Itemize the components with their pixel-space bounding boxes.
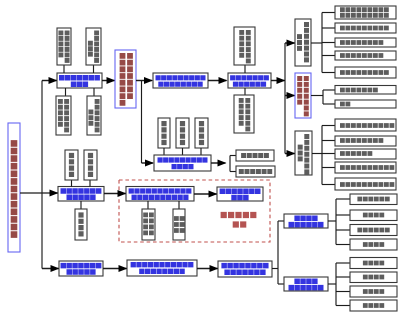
wire 跟踪引进 down stubs — [147, 201, 149, 209]
wire 日常管理辅助决策系统 to systems trunk — [311, 42, 322, 44]
wire 服务层次 to 队伍/物资 trunk — [272, 268, 278, 270]
node 多层次型应急物资体系 — [284, 277, 328, 291]
node 工业区安全应急管理信息平台 — [228, 73, 271, 88]
node 应急值守系统 — [335, 149, 396, 159]
node 防疫物资 — [350, 272, 397, 283]
wire 信息平台 up/down stubs — [244, 65, 246, 73]
node 突发公共卫生类应急预案 — [57, 28, 71, 65]
node 其他 — [335, 100, 396, 108]
node 应急数据统计分析系统 — [335, 162, 396, 173]
node 桌面演练 — [65, 150, 78, 180]
node 强化应急演练评估环节 — [217, 187, 263, 201]
wire 中心建设 to 信息平台建设方案 — [136, 80, 152, 82]
wire 跟踪引进 to 强化评估 — [194, 193, 217, 195]
node 数字化应急预案系统 — [335, 23, 396, 33]
node 应急管理辅助决策系统 — [295, 131, 312, 175]
node 防火物资 — [350, 286, 397, 297]
node 应急协调指挥系统 — [335, 136, 396, 146]
node 医疗队伍 — [350, 210, 397, 221]
wire 培训演练 stubs — [71, 180, 73, 187]
wire 综合应急预案体系建立 down stubs — [65, 88, 67, 96]
node 服务三个层次：企业、园区、社区 — [218, 261, 272, 277]
node 自然灾害类应急预案 — [86, 28, 101, 65]
wire 法制先行 to 服务三个层次 — [197, 268, 218, 270]
node 多层次型应急队伍体系 — [284, 214, 328, 228]
node 公安消防队伍 — [350, 194, 397, 205]
wire 信息平台 to right trunk — [271, 80, 285, 82]
wire 公用工程 to trunk — [311, 95, 323, 97]
node 与上级应急管理平台对接 — [234, 27, 255, 65]
wire 建设方案 to 信息平台 — [208, 80, 227, 82]
node 其他队伍 — [350, 239, 397, 250]
node 综合演练 — [75, 209, 87, 240]
node 其他、如人群疏散系统 — [335, 178, 396, 190]
node 功能演练 — [84, 150, 97, 180]
wire 应急管理辅助决策系统 to trunk — [312, 153, 322, 155]
node 社会安全类应急预案 — [87, 96, 101, 135]
node 安全生产事故类应急预案 — [56, 96, 71, 135]
node 应急管理信息系统 — [335, 51, 396, 60]
node 体制保障 — [158, 118, 170, 148]
node 南港工业区安全应急管理中心建设 — [115, 50, 136, 108]
node 工业区安全应急管理三制保障 — [154, 155, 211, 171]
node 行政执法与事故报告 — [335, 67, 396, 78]
node root 天津南港工业区应急体系概架 — [8, 123, 20, 252]
node 其他物资 — [350, 300, 397, 311]
node 工业区安全应急管理信息平台建设方案 — [153, 73, 208, 88]
node 应急培训演练系统 — [335, 38, 396, 47]
node 日常管理辅助决策系统 — [295, 19, 311, 66]
wire root to level-1 trunk — [20, 192, 51, 194]
node 应急决策辅助支持系统 — [335, 119, 396, 131]
wire 综合应急预案体系建立 up stubs — [63, 65, 65, 73]
label 两个薄弱环节 — [221, 212, 257, 218]
node 化工区层面 — [236, 150, 274, 161]
wire 资源保障 to 法制先行 — [103, 268, 127, 270]
node 跟踪、引进基于现代计算机技术的三维培训演练 — [126, 187, 194, 202]
wire 物资体系 to 物资 boxes — [328, 283, 336, 285]
wire 中心建设 down to 三制保障 — [141, 81, 143, 164]
wire 综合应急预案体系建立 to 南港工业区安全应急管理中心建设 — [102, 80, 115, 82]
node 管理中心层面 — [236, 166, 275, 177]
node 重大危险源辨识、评价、登记与上报系统 — [335, 6, 396, 19]
node 事故再现模拟技术 — [142, 209, 155, 240]
node 应急预案培训演练体系建立 — [58, 187, 104, 202]
node 成本低效果好 — [173, 209, 185, 240]
node 抢险堵漏队伍 — [350, 225, 397, 236]
wire 培训演练 to 跟踪引进 — [104, 193, 126, 195]
node 与下级应急管理平台对接 — [234, 95, 254, 133]
wire 保障 stubs — [163, 148, 165, 155]
node 机制保障 — [176, 118, 189, 148]
wire 队伍体系 to 队伍 boxes — [328, 220, 336, 222]
dashed highlight rect 两个薄弱环节 — [119, 180, 270, 242]
node 综合应急预案体系建立 — [57, 73, 102, 88]
node 水、电、蒸汽等 — [335, 86, 396, 95]
node 防汛物资 — [350, 258, 397, 269]
node 综合应急资源保障体系建立 — [59, 261, 103, 276]
wire 三制保障 to 层面 boxes — [211, 162, 226, 164]
node 法制保障 — [195, 118, 208, 148]
node 法制先行（最低层次，管委会令或规定等） — [127, 260, 197, 276]
node 公用工程物料参数数据中心 — [295, 73, 311, 118]
